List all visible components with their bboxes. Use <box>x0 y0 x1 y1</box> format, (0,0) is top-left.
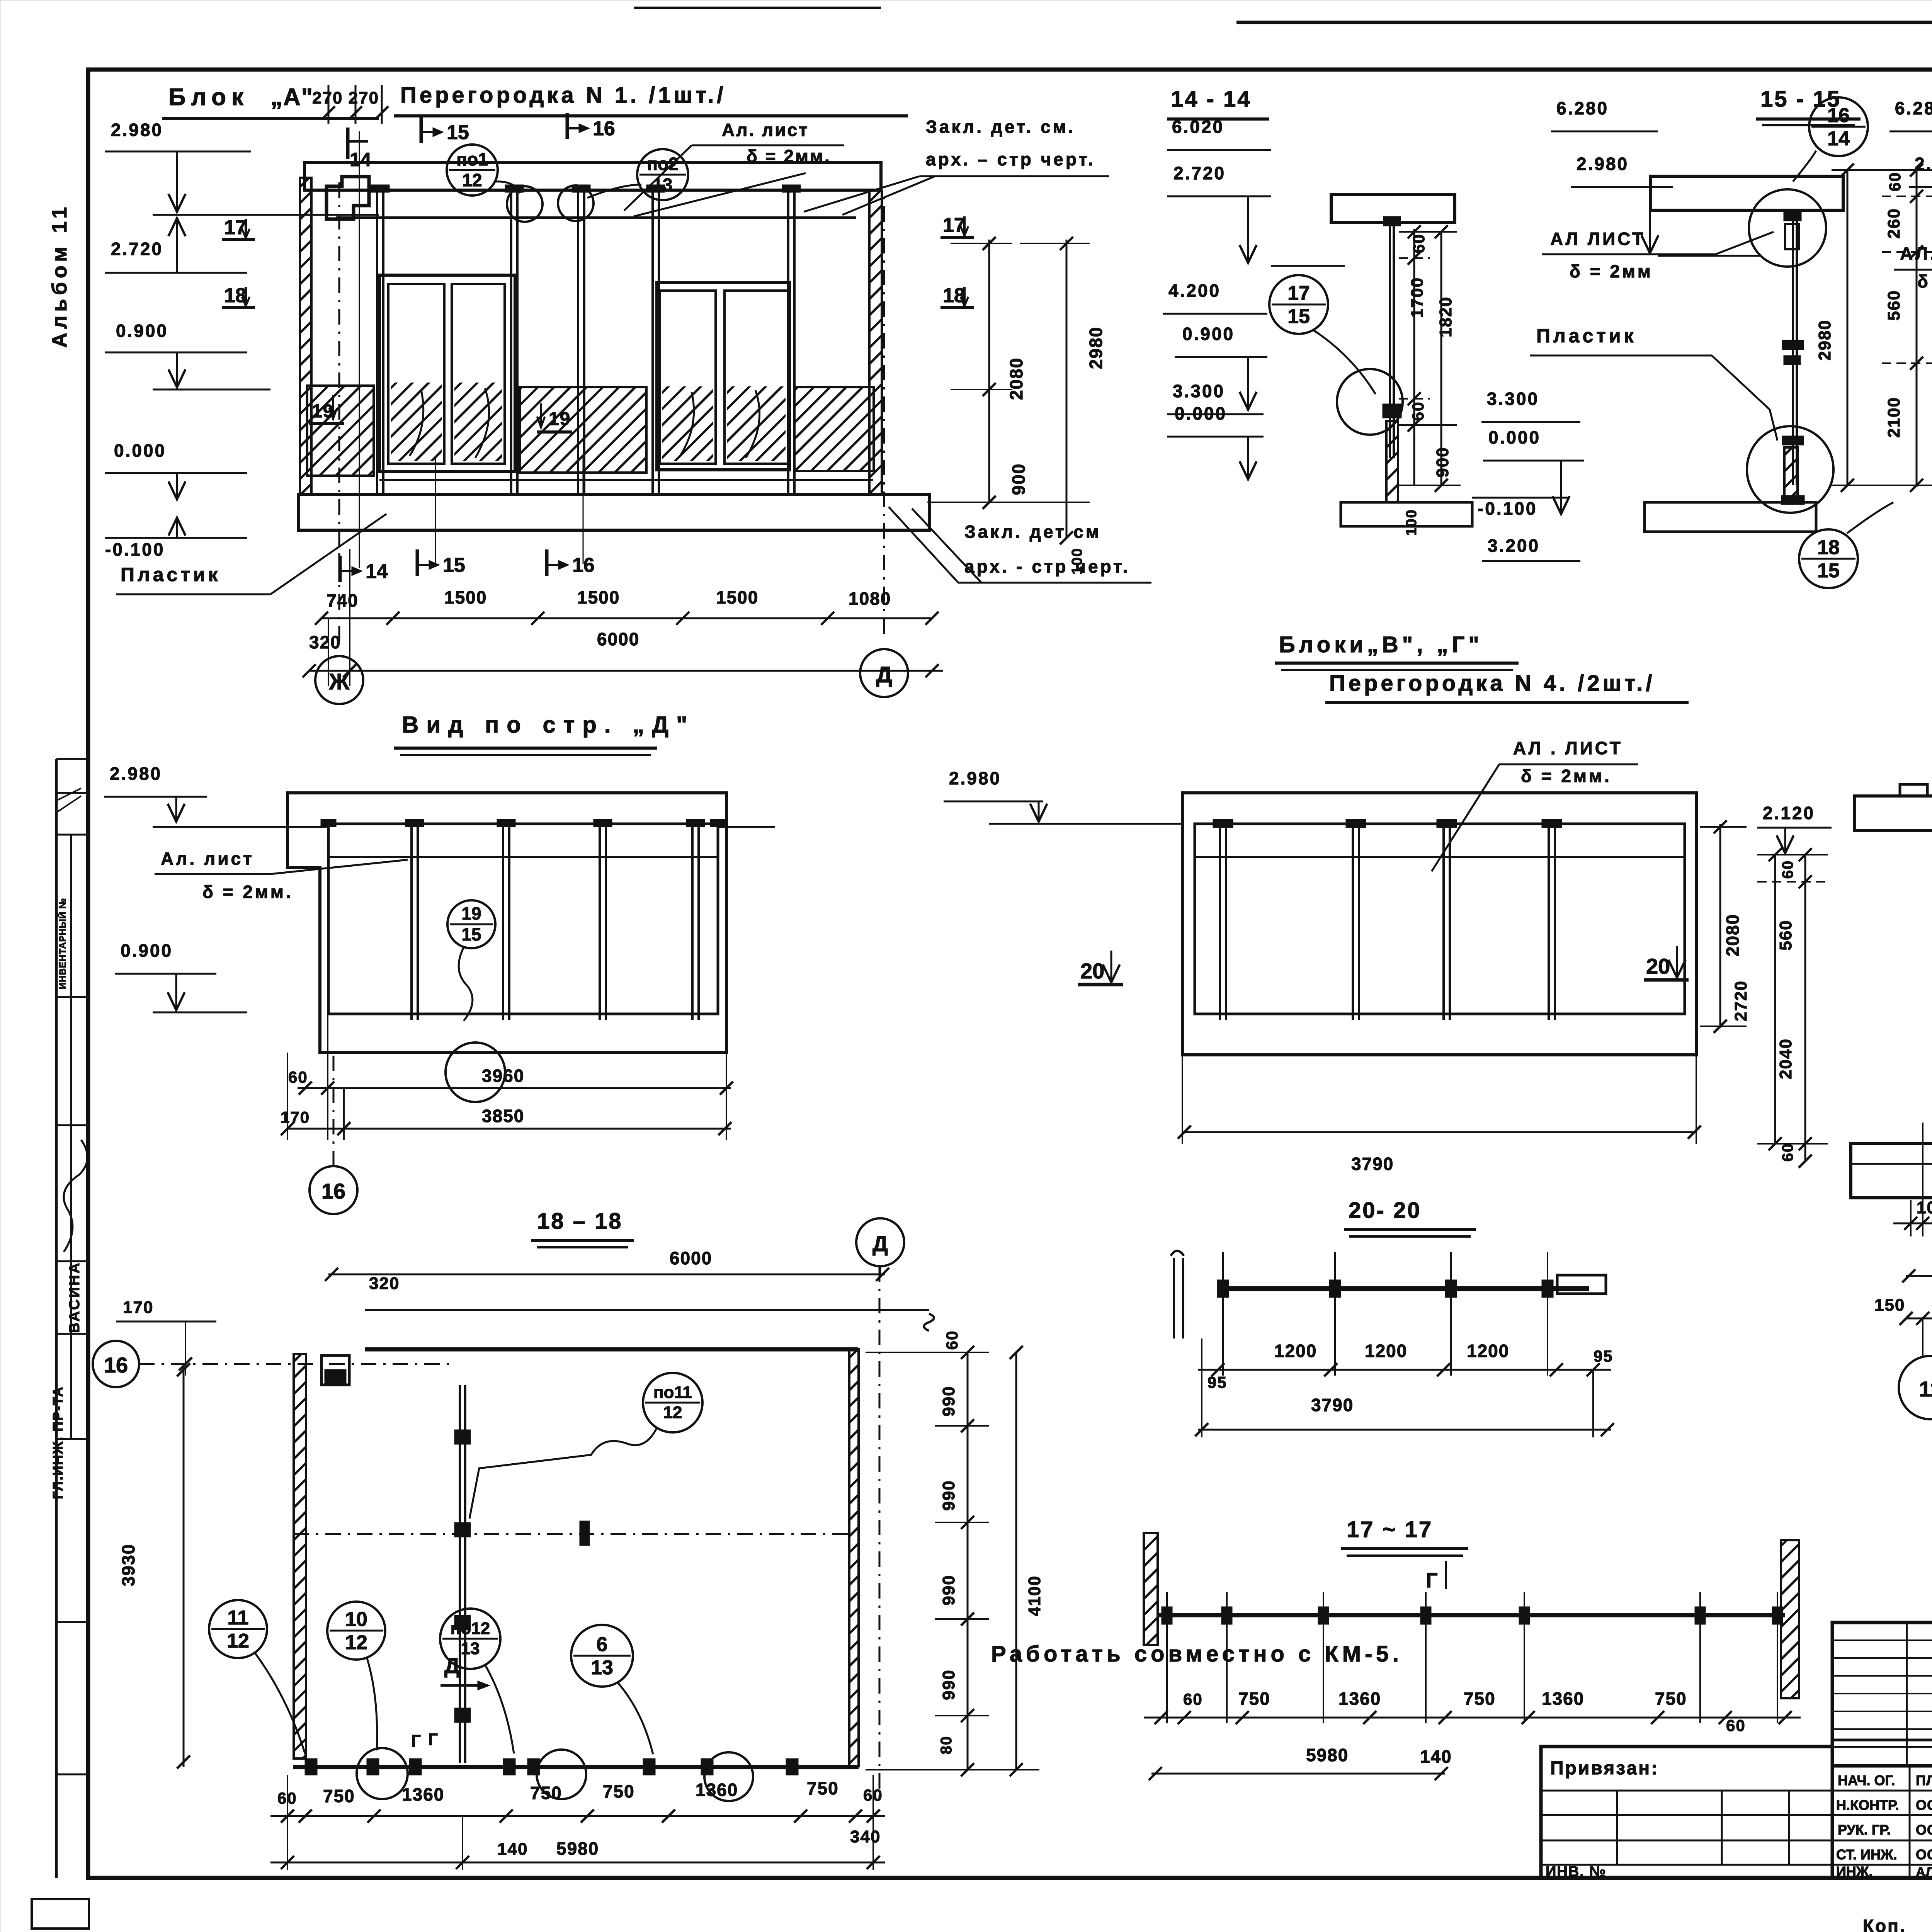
svg-text:17: 17 <box>1287 282 1310 304</box>
svg-text:16: 16 <box>104 1353 128 1377</box>
svg-text:16: 16 <box>1827 104 1850 127</box>
svg-text:1820: 1820 <box>1436 296 1455 337</box>
svg-text:Работать совместно с КМ-5.: Работать совместно с КМ-5. <box>991 1641 1403 1667</box>
svg-text:3.300: 3.300 <box>1173 381 1225 401</box>
svg-text:1360: 1360 <box>402 1784 444 1804</box>
svg-text:17 ~ 17: 17 ~ 17 <box>1347 1517 1433 1542</box>
svg-text:6.020: 6.020 <box>1172 117 1224 137</box>
svg-text:Д: Д <box>444 1653 460 1678</box>
svg-text:Блок: Блок <box>168 84 249 111</box>
svg-text:5980: 5980 <box>1306 1745 1349 1765</box>
svg-text:15: 15 <box>447 121 469 144</box>
svg-text:1200: 1200 <box>1467 1341 1509 1361</box>
svg-text:АЛЕКСАНДРОВ: АЛЕКСАНДРОВ <box>1916 1865 1932 1879</box>
svg-text:1500: 1500 <box>444 587 487 607</box>
svg-text:14: 14 <box>1827 128 1850 150</box>
svg-text:140: 140 <box>497 1840 528 1859</box>
svg-text:170: 170 <box>123 1298 153 1317</box>
svg-text:12: 12 <box>227 1630 249 1652</box>
svg-text:990: 990 <box>939 1669 958 1700</box>
svg-text:2.720: 2.720 <box>111 239 163 259</box>
svg-text:100: 100 <box>1403 509 1420 536</box>
svg-text:16: 16 <box>572 554 595 577</box>
svg-text:Блоки„В", „Г": Блоки„В", „Г" <box>1279 632 1483 657</box>
svg-text:260: 260 <box>1884 208 1903 238</box>
svg-text:16: 16 <box>321 1179 345 1203</box>
svg-text:по1: по1 <box>456 149 488 169</box>
svg-text:1500: 1500 <box>577 587 620 607</box>
svg-text:270 270: 270 270 <box>312 88 379 107</box>
svg-text:18 – 18: 18 – 18 <box>537 1209 623 1234</box>
svg-text:Г: Г <box>1426 1569 1438 1592</box>
svg-text:3960: 3960 <box>482 1066 524 1086</box>
svg-text:6.280: 6.280 <box>1556 98 1609 118</box>
svg-text:3.300: 3.300 <box>1487 389 1539 409</box>
svg-text:750: 750 <box>530 1783 562 1803</box>
svg-text:Г: Г <box>411 1731 421 1750</box>
svg-text:2080: 2080 <box>1723 914 1743 956</box>
svg-text:19: 19 <box>549 409 571 429</box>
svg-text:12: 12 <box>663 1403 682 1422</box>
svg-text:Закл. дет см: Закл. дет см <box>964 522 1101 542</box>
svg-text:750: 750 <box>1655 1689 1687 1709</box>
svg-text:Пластик: Пластик <box>1536 325 1637 347</box>
svg-text:990: 990 <box>939 1575 958 1605</box>
svg-text:по12: по12 <box>451 1619 490 1638</box>
svg-text:3.200: 3.200 <box>1488 536 1540 556</box>
svg-text:2980: 2980 <box>1815 320 1834 361</box>
svg-text:560: 560 <box>1884 290 1903 320</box>
svg-text:2.980: 2.980 <box>949 768 1001 788</box>
svg-text:80: 80 <box>938 1736 955 1755</box>
svg-text:15: 15 <box>1817 560 1840 582</box>
svg-text:20- 20: 20- 20 <box>1349 1198 1421 1223</box>
svg-text:20: 20 <box>1646 954 1670 978</box>
svg-text:10: 10 <box>345 1608 367 1631</box>
svg-text:750: 750 <box>323 1786 355 1806</box>
svg-text:Ж: Ж <box>329 669 350 694</box>
svg-text:СТ. ИНЖ.: СТ. ИНЖ. <box>1836 1847 1897 1862</box>
svg-text:750: 750 <box>1238 1689 1270 1709</box>
svg-text:Перегородка N 4. /2шт./: Перегородка N 4. /2шт./ <box>1329 671 1655 696</box>
svg-text:-0.100: -0.100 <box>105 539 165 560</box>
svg-text:δ = 2мм: δ = 2мм <box>1917 271 1932 291</box>
svg-text:ГЛ.ИНЖ. ПР-ТА: ГЛ.ИНЖ. ПР-ТА <box>50 1386 66 1499</box>
svg-text:АЛ. ЛИСТ: АЛ. ЛИСТ <box>1900 243 1932 264</box>
svg-text:60: 60 <box>1183 1690 1203 1708</box>
svg-text:Ал. лист: Ал. лист <box>722 120 809 140</box>
svg-text:2.980: 2.980 <box>1577 154 1629 174</box>
svg-text:990: 990 <box>939 1480 958 1510</box>
svg-text:990: 990 <box>939 1386 958 1416</box>
svg-text:1360: 1360 <box>696 1780 738 1800</box>
svg-text:Закл. дет. см.: Закл. дет. см. <box>926 117 1075 137</box>
svg-text:Альбом 11: Альбом 11 <box>48 203 71 348</box>
svg-text:60: 60 <box>1886 172 1904 192</box>
svg-text:Д: Д <box>872 1231 888 1256</box>
svg-text:18: 18 <box>1817 536 1840 559</box>
svg-text:560: 560 <box>1776 920 1795 950</box>
svg-text:320: 320 <box>369 1274 400 1293</box>
svg-text:ИНЖ.: ИНЖ. <box>1836 1864 1872 1879</box>
svg-text:1500: 1500 <box>716 587 759 607</box>
svg-text:Перегородка N 1. /1шт./: Перегородка N 1. /1шт./ <box>400 83 726 108</box>
svg-text:170: 170 <box>281 1108 310 1126</box>
svg-text:2.720: 2.720 <box>1173 163 1226 183</box>
svg-text:12: 12 <box>462 170 482 190</box>
svg-text:ИНВЕНТАРНЫЙ №: ИНВЕНТАРНЫЙ № <box>57 898 68 989</box>
svg-text:2720: 2720 <box>1731 980 1750 1021</box>
svg-text:0.000: 0.000 <box>1488 427 1541 447</box>
svg-text:60: 60 <box>1410 234 1428 253</box>
svg-text:750: 750 <box>603 1781 635 1801</box>
svg-text:5980: 5980 <box>556 1838 599 1859</box>
svg-text:РУК. ГР.: РУК. ГР. <box>1838 1822 1891 1838</box>
svg-text:2.980: 2.980 <box>111 120 163 140</box>
svg-text:ИНВ. №: ИНВ. № <box>1546 1864 1607 1880</box>
svg-text:Пластик: Пластик <box>121 564 221 585</box>
svg-text:ОСАДЬКО: ОСАДЬКО <box>1916 1822 1932 1838</box>
svg-text:13: 13 <box>461 1639 480 1658</box>
svg-text:100: 100 <box>1917 1198 1932 1217</box>
svg-text:60: 60 <box>1779 1143 1796 1162</box>
svg-text:17: 17 <box>943 214 965 236</box>
svg-text:750: 750 <box>807 1778 839 1798</box>
svg-text:12: 12 <box>345 1631 367 1654</box>
svg-text:15: 15 <box>461 924 481 944</box>
svg-text:4.200: 4.200 <box>1168 281 1221 301</box>
svg-text:17: 17 <box>224 216 247 239</box>
svg-text:ОСТРЕЙКО: ОСТРЕЙКО <box>1916 1846 1932 1862</box>
svg-text:6: 6 <box>597 1633 608 1656</box>
svg-text:140: 140 <box>1420 1747 1452 1767</box>
svg-text:Вид по стр. „Д": Вид по стр. „Д" <box>402 712 695 738</box>
svg-text:95: 95 <box>1594 1347 1613 1365</box>
svg-text:Г: Г <box>428 1730 438 1749</box>
svg-text:14: 14 <box>366 560 388 583</box>
svg-text:1080: 1080 <box>849 588 891 609</box>
svg-text:900: 900 <box>1009 463 1029 495</box>
svg-text:15: 15 <box>1287 305 1310 328</box>
svg-text:18: 18 <box>224 284 247 307</box>
svg-text:2980: 2980 <box>1086 327 1106 369</box>
svg-text:0.000: 0.000 <box>1175 403 1227 423</box>
svg-text:по11: по11 <box>653 1383 692 1402</box>
svg-text:15: 15 <box>443 554 465 577</box>
svg-text:340: 340 <box>850 1827 881 1846</box>
svg-text:АЛ . ЛИСТ: АЛ . ЛИСТ <box>1513 738 1623 758</box>
svg-text:2100: 2100 <box>1884 397 1903 438</box>
svg-text:60: 60 <box>943 1330 961 1350</box>
svg-text:ПЛАТОНОВ: ПЛАТОНОВ <box>1916 1772 1932 1788</box>
svg-text:60: 60 <box>1409 401 1427 421</box>
svg-text:„А": „А" <box>270 84 313 111</box>
svg-text:4100: 4100 <box>1025 1575 1044 1616</box>
svg-text:0.000: 0.000 <box>114 440 166 461</box>
svg-text:20: 20 <box>1080 959 1104 983</box>
svg-text:2040: 2040 <box>1776 1038 1795 1079</box>
svg-text:2.120: 2.120 <box>1763 803 1815 823</box>
svg-text:Н.КОНТР.: Н.КОНТР. <box>1836 1797 1899 1813</box>
svg-text:18: 18 <box>943 284 965 307</box>
svg-text:Коп.: Коп. <box>1863 1916 1906 1932</box>
svg-text:11: 11 <box>1919 1377 1932 1401</box>
svg-text:6000: 6000 <box>597 629 639 649</box>
svg-text:3790: 3790 <box>1351 1154 1394 1174</box>
svg-text:150: 150 <box>1874 1296 1905 1315</box>
svg-text:δ = 2мм: δ = 2мм <box>1570 261 1653 281</box>
svg-text:740: 740 <box>327 590 359 611</box>
svg-text:900: 900 <box>1433 447 1452 477</box>
svg-text:1700: 1700 <box>1408 277 1427 318</box>
svg-text:3930: 3930 <box>118 1544 138 1586</box>
svg-text:АЛ ЛИСТ: АЛ ЛИСТ <box>1550 229 1645 249</box>
svg-text:НАЧ. ОГ.: НАЧ. ОГ. <box>1838 1772 1895 1788</box>
svg-text:320: 320 <box>309 632 341 652</box>
svg-text:-0.100: -0.100 <box>1478 498 1537 519</box>
svg-text:6.280: 6.280 <box>1895 98 1932 118</box>
svg-text:δ = 2мм.: δ = 2мм. <box>747 146 831 166</box>
svg-text:2080: 2080 <box>1006 357 1026 400</box>
svg-text:0.900: 0.900 <box>1182 324 1235 344</box>
svg-text:0.900: 0.900 <box>116 321 168 341</box>
svg-text:750: 750 <box>1464 1689 1496 1709</box>
svg-text:60: 60 <box>1779 860 1796 879</box>
svg-text:Привязан:: Привязан: <box>1550 1758 1659 1779</box>
svg-text:60: 60 <box>1726 1716 1746 1735</box>
svg-text:60: 60 <box>288 1068 308 1086</box>
svg-text:арх. - стр черт.: арх. - стр черт. <box>964 556 1130 577</box>
svg-text:0.900: 0.900 <box>121 940 173 961</box>
svg-text:19: 19 <box>461 903 481 923</box>
svg-text:14 - 14: 14 - 14 <box>1171 87 1252 112</box>
svg-text:арх. – стр черт.: арх. – стр черт. <box>926 149 1095 169</box>
svg-text:ОСАДЬКО: ОСАДЬКО <box>1916 1797 1932 1813</box>
svg-text:16: 16 <box>593 117 615 140</box>
svg-text:Ал. лист: Ал. лист <box>161 849 254 869</box>
svg-text:δ = 2мм.: δ = 2мм. <box>202 882 293 902</box>
svg-text:ВАСИНА: ВАСИНА <box>66 1261 83 1333</box>
svg-text:1360: 1360 <box>1338 1689 1381 1709</box>
svg-text:Д: Д <box>876 662 892 687</box>
svg-text:2.980: 2.980 <box>110 764 162 784</box>
svg-text:δ = 2мм.: δ = 2мм. <box>1521 766 1612 786</box>
svg-text:13: 13 <box>653 175 672 195</box>
svg-text:1200: 1200 <box>1274 1341 1317 1361</box>
svg-text:3850: 3850 <box>482 1106 524 1126</box>
svg-text:3790: 3790 <box>1311 1395 1354 1415</box>
svg-text:14: 14 <box>350 149 371 170</box>
svg-text:95: 95 <box>1207 1373 1227 1391</box>
svg-text:11: 11 <box>228 1607 249 1629</box>
svg-text:1360: 1360 <box>1542 1689 1584 1709</box>
svg-text:13: 13 <box>591 1656 613 1679</box>
svg-text:6000: 6000 <box>670 1248 712 1268</box>
svg-text:1200: 1200 <box>1365 1341 1407 1361</box>
